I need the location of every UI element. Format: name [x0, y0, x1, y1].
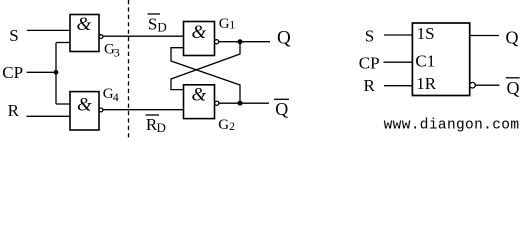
label Q-bar (IEC output)	[506, 78, 520, 98]
label G3	[104, 42, 120, 60]
svg-text:1S: 1S	[417, 24, 435, 43]
gate G2 (NAND)	[184, 85, 219, 119]
dashed boundary line	[128, 0, 130, 138]
svg-text:1R: 1R	[416, 74, 437, 93]
svg-text:D: D	[157, 20, 166, 35]
wire Q-bar feedback to G1 input	[171, 48, 240, 103]
svg-text:3: 3	[114, 46, 120, 60]
svg-text:R: R	[8, 101, 20, 120]
output bubble Q-bar (IEC)	[470, 82, 476, 88]
label G4	[103, 86, 119, 104]
wire Q output (IEC)	[470, 35, 499, 37]
gate G1 (NAND)	[184, 22, 219, 56]
label G1	[219, 16, 236, 32]
wire S to G3	[27, 29, 71, 31]
svg-text:D: D	[157, 120, 166, 135]
junction dot CP	[54, 70, 59, 75]
wire Q feedback to G2 input	[171, 42, 240, 90]
svg-text:&: &	[192, 22, 207, 43]
wire R to IEC box	[384, 85, 413, 87]
svg-text:&: &	[192, 85, 207, 106]
gate G3 (NAND)	[70, 14, 103, 52]
svg-text:2: 2	[229, 119, 235, 133]
wire CP stub to G4	[56, 103, 71, 105]
svg-text:www.diangon.com: www.diangon.com	[384, 117, 520, 133]
svg-text:Q: Q	[277, 28, 291, 49]
wire Q-bar output	[219, 102, 269, 104]
svg-text:&: &	[77, 14, 92, 35]
svg-text:Q: Q	[507, 78, 520, 98]
gate G4 (NAND)	[70, 92, 103, 130]
wire CP vertical branch	[55, 43, 57, 105]
label Q-bar	[274, 99, 289, 119]
svg-text:R: R	[364, 76, 376, 95]
wire Q output	[219, 41, 270, 43]
IEC flip-flop symbol U1	[412, 23, 469, 96]
svg-text:CP: CP	[359, 53, 380, 72]
svg-text:4: 4	[113, 90, 119, 104]
wire G4 output RD to G2	[103, 109, 184, 111]
wire CP horizontal	[27, 71, 56, 73]
svg-text:Q: Q	[275, 99, 288, 119]
svg-text:&: &	[77, 95, 92, 116]
svg-text:S: S	[9, 26, 18, 45]
junction dot Q	[238, 39, 243, 44]
svg-text:CP: CP	[2, 63, 23, 82]
label G2	[218, 117, 235, 133]
svg-text:C1: C1	[415, 51, 435, 70]
junction dot Q-bar	[238, 101, 243, 106]
wire CP stub to G3	[56, 42, 71, 44]
svg-text:G: G	[219, 16, 230, 32]
svg-text:S: S	[365, 26, 374, 45]
wire R to G4	[26, 115, 70, 117]
label RD-bar	[146, 115, 166, 135]
svg-text:S: S	[148, 15, 157, 34]
wire S to IEC box	[384, 34, 413, 36]
wire CP to IEC box	[383, 61, 412, 63]
svg-text:G: G	[218, 117, 229, 133]
wire Q-bar output (IEC)	[475, 84, 499, 86]
svg-text:Q: Q	[506, 27, 519, 47]
label SD-bar	[148, 14, 167, 35]
svg-text:1: 1	[229, 18, 235, 32]
wire G3 output SD to G1	[103, 35, 184, 37]
